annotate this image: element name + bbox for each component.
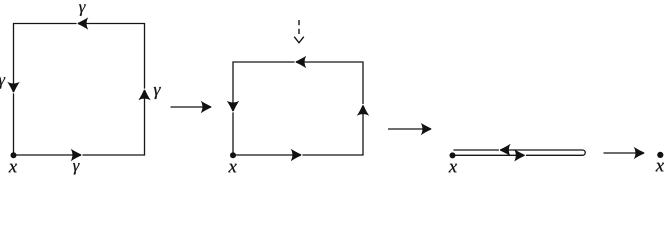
label gamma top xyxy=(79,4,86,15)
arrow bottom edge (right) xyxy=(71,149,82,161)
arrow top edge rect (left) xyxy=(296,56,307,68)
dashed push arrow xyxy=(294,20,304,43)
wire flattened loop xyxy=(453,150,586,155)
wire square outline xyxy=(14,24,145,156)
label x 4 xyxy=(656,163,664,171)
node x dot 4 xyxy=(657,152,663,158)
label x 3 xyxy=(449,164,457,172)
map arrow 2 xyxy=(388,128,426,130)
arrow outgoing bottom line (right) xyxy=(514,149,525,161)
arrow left edge (down) xyxy=(7,82,19,93)
arrow bottom edge rect (right) xyxy=(291,149,302,161)
label x 2 xyxy=(228,164,236,172)
node x dot 1 xyxy=(11,152,17,158)
wire rectangle outline xyxy=(233,62,363,155)
node x dot 2 xyxy=(230,152,236,158)
label x 1 xyxy=(9,164,17,172)
square loop figure 1 xyxy=(14,24,145,156)
map arrow 1 xyxy=(171,106,207,108)
arrow top edge (left) xyxy=(78,17,89,29)
arrow right edge rect (up) xyxy=(357,105,369,116)
arrow return top line (left) xyxy=(500,144,511,156)
label gamma left xyxy=(0,77,5,88)
map arrow 3 xyxy=(604,152,640,154)
node x dot 3 xyxy=(450,152,456,158)
label gamma right xyxy=(154,87,161,99)
rectangle loop figure 2 xyxy=(233,62,363,155)
arrow left edge rect (down) xyxy=(227,101,239,112)
label gamma bottom xyxy=(73,163,80,174)
collapsed loop figure 3 xyxy=(453,150,586,155)
arrow right edge (up) xyxy=(138,90,150,101)
